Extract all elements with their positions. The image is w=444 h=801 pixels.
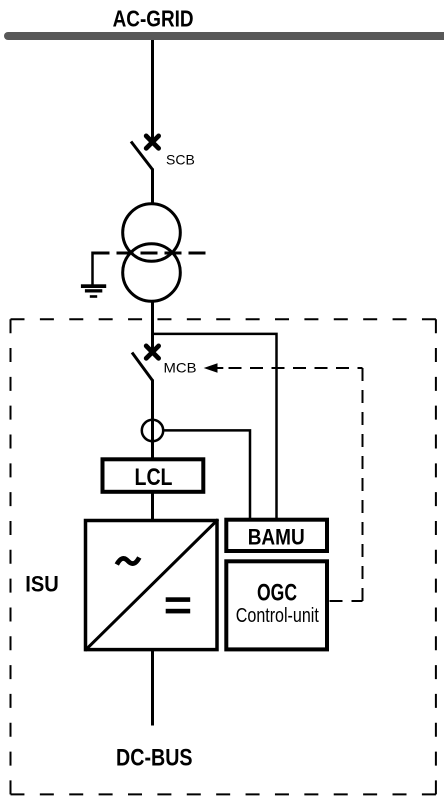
svg-text:MCB: MCB — [164, 359, 197, 375]
svg-text:BAMU: BAMU — [248, 524, 305, 549]
svg-text:ISU: ISU — [25, 571, 59, 596]
svg-text:AC-GRID: AC-GRID — [113, 6, 194, 32]
svg-text:Control-unit: Control-unit — [236, 604, 319, 627]
svg-text:LCL: LCL — [135, 464, 173, 491]
svg-text:DC-BUS: DC-BUS — [116, 745, 193, 772]
svg-text:SCB: SCB — [166, 152, 195, 168]
svg-text:OGC: OGC — [257, 579, 297, 606]
